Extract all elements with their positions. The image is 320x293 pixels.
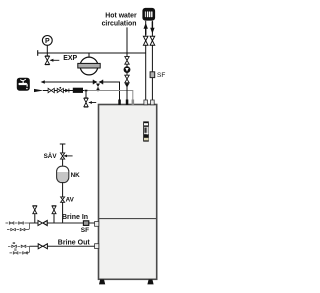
brine out external row 2 xyxy=(10,247,30,253)
pipe to level vessel xyxy=(62,159,64,166)
circulation pump xyxy=(124,66,131,73)
svg-text:Brine In: Brine In xyxy=(62,214,88,221)
cold water line xyxy=(43,90,86,92)
tap water icon xyxy=(17,78,30,91)
level vessel NK xyxy=(57,166,69,182)
brine out external row 1 xyxy=(8,245,30,247)
safety valve SAV xyxy=(61,153,73,159)
tank top fitting 3 gray xyxy=(132,100,135,105)
valve AV xyxy=(61,197,65,202)
brine in filter SF xyxy=(83,221,88,226)
svg-text:AV: AV xyxy=(66,196,75,203)
unit foot right xyxy=(147,279,153,284)
SAV pipe xyxy=(62,144,64,153)
vent valve 1 xyxy=(33,206,37,223)
pipe vessel to AV xyxy=(62,183,64,197)
circulation valve 2 xyxy=(125,75,129,83)
tank top fitting 5 xyxy=(151,100,155,105)
brine out row2 valves xyxy=(13,251,18,254)
pipe AV to brine line xyxy=(62,202,64,223)
expansion vessel EXP xyxy=(78,53,100,75)
circulation check valve xyxy=(125,84,129,88)
brine in shut-off valve xyxy=(38,221,47,226)
riser up arrow xyxy=(144,23,148,29)
control panel U1 xyxy=(143,121,149,141)
circulation return riser right xyxy=(151,21,153,101)
svg-text:SÄV: SÄV xyxy=(44,152,58,160)
riser right valve xyxy=(150,36,155,45)
mixing valve xyxy=(93,80,103,92)
brine in line xyxy=(30,222,95,224)
particle filter SF on riser xyxy=(150,72,155,78)
drain valve below gauge xyxy=(45,53,59,65)
brine out side fitting xyxy=(95,244,99,249)
svg-text:SF: SF xyxy=(81,227,89,234)
tank top fitting 2 xyxy=(126,100,129,105)
riser left valve xyxy=(143,36,148,45)
cold water inlet arrow xyxy=(34,89,43,92)
brine in row2 valves xyxy=(11,228,16,231)
pipe mixing valve to tank xyxy=(103,82,120,100)
brine in external row 2 xyxy=(7,223,30,229)
tank top fitting 4 xyxy=(144,100,148,105)
vent valve 2 xyxy=(52,206,56,223)
expansion/safety line (y=53) xyxy=(38,52,146,54)
boiler drain valve branch xyxy=(84,91,96,108)
brine in row1 valves xyxy=(9,222,14,225)
svg-text:SF: SF xyxy=(157,72,165,79)
riser down arrow xyxy=(150,28,154,34)
svg-text:Brine Out: Brine Out xyxy=(58,239,91,246)
brine out row1 valves xyxy=(12,245,17,248)
brine out line xyxy=(30,245,95,247)
capped end xyxy=(37,50,39,56)
hot water circulation pipe xyxy=(126,27,128,100)
unit foot left xyxy=(99,279,105,284)
shower/radiator icon xyxy=(142,8,155,21)
brine in side fitting xyxy=(95,222,99,227)
heat pump unit body xyxy=(99,105,157,280)
hot water out line to taps (y=82) xyxy=(41,80,94,83)
pressure gauge P xyxy=(42,36,52,54)
circulation shut-off valve xyxy=(125,57,129,65)
cold water line gray run to tank xyxy=(84,91,133,101)
cut marks xyxy=(13,242,15,243)
svg-text:circulation: circulation xyxy=(102,20,137,27)
svg-text:NK: NK xyxy=(71,172,81,179)
hot water riser left xyxy=(145,21,147,101)
ball valve V2 xyxy=(57,87,63,93)
brine out shut-off valve xyxy=(38,244,47,249)
filter xyxy=(73,88,83,93)
check valve xyxy=(65,89,69,93)
external mini valve symbols xyxy=(9,222,27,255)
svg-text:P: P xyxy=(45,38,50,45)
brine in external row 1 xyxy=(6,222,30,224)
svg-text:Hot water: Hot water xyxy=(105,13,137,20)
external brine connections dashed xyxy=(6,223,30,230)
tank top fitting 1 xyxy=(118,100,121,105)
SAV discharge cap xyxy=(60,143,66,145)
shut-off valve V1 xyxy=(48,88,54,92)
svg-text:EXP: EXP xyxy=(63,55,77,62)
unit section divider xyxy=(99,218,157,220)
